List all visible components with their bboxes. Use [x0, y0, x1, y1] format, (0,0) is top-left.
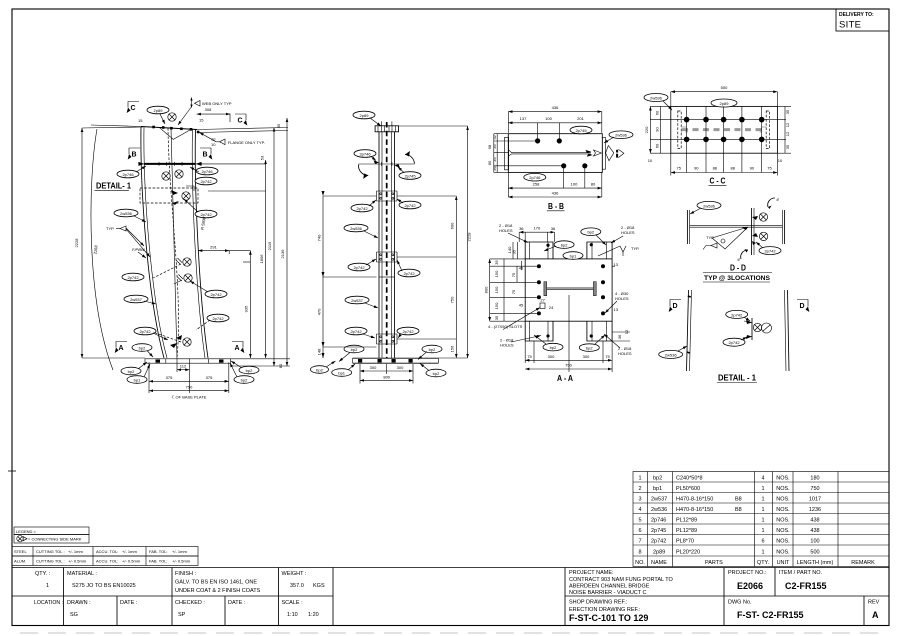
- svg-text:bp2: bp2: [433, 371, 440, 376]
- svg-text:1: 1: [761, 550, 764, 556]
- svg-text:PL12*89: PL12*89: [676, 518, 697, 524]
- svg-text:800: 800: [383, 375, 390, 380]
- svg-text:8: 8: [638, 550, 641, 556]
- svg-text:NOISE BARRIER - VIADUCT C: NOISE BARRIER - VIADUCT C: [569, 590, 647, 596]
- svg-text:F-ST-C-101 TO 129: F-ST-C-101 TO 129: [569, 613, 648, 623]
- svg-text:bp2: bp2: [139, 346, 146, 351]
- svg-text:2w536: 2w536: [650, 96, 663, 101]
- svg-text:36: 36: [519, 226, 524, 231]
- svg-text:6: 6: [736, 257, 742, 263]
- svg-text:750: 750: [186, 385, 193, 390]
- svg-text:12: 12: [785, 122, 790, 127]
- svg-text:90: 90: [654, 127, 659, 132]
- svg-text:1: 1: [761, 497, 764, 503]
- svg-text:2p742: 2p742: [200, 179, 212, 184]
- svg-text:2228: 2228: [467, 232, 472, 242]
- svg-text:R 5800: R 5800: [200, 216, 207, 230]
- svg-text:2w537: 2w537: [651, 497, 667, 503]
- svg-text:bp2: bp2: [561, 243, 568, 248]
- svg-text:2p745: 2p745: [651, 528, 666, 534]
- svg-text:PROJECT NAME:: PROJECT NAME:: [569, 570, 614, 576]
- svg-text:bp1: bp1: [653, 486, 662, 492]
- svg-text:2136: 2136: [280, 249, 285, 259]
- svg-text:H470-8-16*150: H470-8-16*150: [676, 507, 713, 513]
- svg-text:bp2: bp2: [246, 368, 253, 373]
- svg-text:+/- 1mm: +/- 1mm: [122, 549, 137, 554]
- svg-text:DRAWN :: DRAWN :: [67, 600, 91, 606]
- svg-text:F-ST- C2-FR155: F-ST- C2-FR155: [737, 610, 804, 620]
- svg-text:= CONNECTING SIDE MARK: = CONNECTING SIDE MARK: [28, 537, 82, 542]
- svg-text:+/- 0.5mm: +/- 0.5mm: [122, 559, 141, 564]
- svg-text:148: 148: [317, 348, 322, 355]
- svg-text:12: 12: [624, 329, 629, 334]
- svg-text:6: 6: [775, 197, 781, 203]
- svg-text:2w536: 2w536: [665, 352, 678, 357]
- svg-text:KGS: KGS: [313, 583, 325, 589]
- svg-text:PL20*220: PL20*220: [676, 550, 700, 556]
- svg-text:ACCU. TOL:: ACCU. TOL:: [96, 549, 118, 554]
- svg-text:2p746: 2p746: [122, 172, 134, 177]
- svg-text:2p89: 2p89: [154, 108, 164, 113]
- svg-text:90: 90: [750, 166, 755, 171]
- svg-text:1: 1: [761, 486, 764, 492]
- svg-text:750: 750: [810, 486, 819, 492]
- svg-text:2w536: 2w536: [350, 226, 363, 231]
- svg-text:FAB. TOL:: FAB. TOL:: [149, 549, 168, 554]
- svg-text:375: 375: [166, 375, 173, 380]
- svg-text:ALUM.: ALUM.: [14, 559, 26, 564]
- svg-text:438: 438: [810, 518, 819, 524]
- svg-text:2p745: 2p745: [575, 128, 587, 133]
- svg-text:NOS.: NOS.: [776, 507, 790, 513]
- svg-text:137: 137: [520, 116, 527, 121]
- svg-text:75: 75: [527, 354, 532, 359]
- svg-text:CONTRACT 903 NAM FUNG PORTAL T: CONTRACT 903 NAM FUNG PORTAL TO: [569, 577, 674, 583]
- svg-text:15: 15: [199, 118, 204, 123]
- svg-text:FINISH :: FINISH :: [175, 571, 197, 577]
- svg-text:6: 6: [761, 539, 764, 545]
- svg-text:88: 88: [713, 166, 718, 171]
- svg-text:QTY.: QTY.: [757, 560, 770, 566]
- svg-text:2p742: 2p742: [404, 203, 416, 208]
- svg-text:WEIGHT :: WEIGHT :: [282, 571, 307, 577]
- svg-text:500: 500: [721, 85, 728, 90]
- svg-text:B8: B8: [735, 497, 742, 503]
- svg-text:88: 88: [730, 166, 735, 171]
- svg-text:TYP.: TYP.: [631, 246, 639, 251]
- svg-text:ABERDEEN CHANNEL BRIDGE: ABERDEEN CHANNEL BRIDGE: [569, 584, 650, 590]
- svg-text:bp1: bp1: [338, 371, 345, 376]
- svg-text:GALV. TO BS EN ISO 1461, ONE: GALV. TO BS EN ISO 1461, ONE: [175, 580, 257, 586]
- svg-text:NOS.: NOS.: [776, 486, 790, 492]
- svg-text:1:20: 1:20: [308, 612, 319, 618]
- svg-text:1:10: 1:10: [287, 612, 298, 618]
- svg-text:35: 35: [494, 260, 499, 265]
- svg-text:NOS.: NOS.: [776, 550, 790, 556]
- svg-text:100: 100: [810, 539, 819, 545]
- svg-text:TYP.: TYP.: [706, 235, 714, 240]
- svg-text:436: 436: [552, 105, 559, 110]
- svg-text:TYP.: TYP.: [106, 226, 114, 231]
- svg-text:1: 1: [638, 476, 641, 482]
- svg-text:35: 35: [492, 157, 497, 162]
- svg-text:10: 10: [648, 158, 653, 163]
- svg-text:SP: SP: [178, 612, 186, 618]
- svg-text:740: 740: [317, 234, 322, 241]
- svg-text:2p742: 2p742: [200, 212, 212, 217]
- svg-text:CUTTING TOL :: CUTTING TOL :: [36, 559, 65, 564]
- svg-text:WEB ONLY TYP: WEB ONLY TYP: [202, 101, 232, 106]
- svg-text:D: D: [673, 303, 678, 310]
- svg-text:2p746: 2p746: [359, 152, 371, 157]
- svg-text:470: 470: [317, 308, 322, 315]
- svg-text:F/PBW: F/PBW: [132, 247, 146, 252]
- svg-text:DELIVERY TO:: DELIVERY TO:: [839, 12, 874, 18]
- svg-text:300: 300: [370, 365, 377, 370]
- svg-text:LEGEND >: LEGEND >: [16, 529, 37, 534]
- svg-text:220: 220: [644, 126, 649, 133]
- svg-text:180: 180: [810, 476, 819, 482]
- svg-text:300: 300: [397, 365, 404, 370]
- svg-text:2w536: 2w536: [615, 133, 628, 138]
- svg-text:35: 35: [785, 144, 790, 149]
- svg-text:27: 27: [540, 298, 545, 303]
- svg-text:HOLES: HOLES: [615, 296, 629, 301]
- svg-text:75: 75: [767, 166, 772, 171]
- svg-text:ITEM / PART NO.: ITEM / PART NO.: [779, 570, 823, 576]
- svg-text:C240*50*8: C240*50*8: [676, 476, 703, 482]
- svg-text:750: 750: [450, 296, 455, 303]
- svg-text:2228: 2228: [74, 238, 79, 248]
- svg-text:E2066: E2066: [737, 581, 763, 591]
- svg-text:DATE :: DATE :: [228, 600, 246, 606]
- svg-text:2w536: 2w536: [120, 211, 133, 216]
- svg-text:2w537: 2w537: [130, 297, 143, 302]
- svg-text:2p742: 2p742: [731, 312, 743, 317]
- svg-text:2p742: 2p742: [127, 275, 139, 280]
- svg-text:201: 201: [577, 116, 584, 121]
- svg-text:B: B: [132, 152, 137, 159]
- svg-text:bp2: bp2: [429, 347, 436, 352]
- svg-text:PL8*70: PL8*70: [676, 539, 694, 545]
- svg-text:PL50*600: PL50*600: [676, 486, 700, 492]
- svg-text:291: 291: [210, 245, 217, 250]
- svg-text:60: 60: [654, 143, 659, 148]
- svg-text:2p746: 2p746: [651, 518, 666, 524]
- svg-text:357.0: 357.0: [290, 583, 304, 589]
- svg-text:1: 1: [761, 518, 764, 524]
- svg-text:375: 375: [206, 375, 213, 380]
- svg-text:2p89: 2p89: [653, 550, 665, 556]
- svg-text:D: D: [800, 303, 805, 310]
- svg-text:SCALE :: SCALE :: [282, 600, 304, 606]
- svg-text:bp2: bp2: [316, 368, 323, 373]
- svg-text:bp2: bp2: [550, 345, 557, 350]
- svg-text:150: 150: [494, 302, 499, 309]
- svg-text:TYP @ 3LOCATIONS: TYP @ 3LOCATIONS: [704, 275, 770, 282]
- svg-text:2p742: 2p742: [651, 539, 666, 545]
- svg-text:1017: 1017: [809, 497, 821, 503]
- svg-text:LOCATION :: LOCATION :: [34, 600, 63, 606]
- svg-text:800: 800: [484, 286, 489, 293]
- svg-text:150: 150: [494, 270, 499, 277]
- svg-text:45: 45: [519, 266, 524, 271]
- svg-text:32: 32: [492, 134, 497, 139]
- svg-text:2p742: 2p742: [353, 265, 365, 270]
- svg-text:80: 80: [278, 363, 283, 368]
- svg-text:2115: 2115: [267, 241, 272, 250]
- svg-text:4: 4: [761, 476, 764, 482]
- svg-text:2168: 2168: [92, 244, 98, 254]
- svg-text:PARTS: PARTS: [705, 560, 723, 566]
- svg-text:LENGTH (mm): LENGTH (mm): [797, 560, 834, 566]
- svg-text:2p742: 2p742: [728, 340, 740, 345]
- svg-text:308: 308: [205, 107, 212, 112]
- svg-text:1236: 1236: [809, 507, 821, 513]
- svg-text:B: B: [203, 152, 208, 159]
- svg-text:2p742: 2p742: [350, 329, 362, 334]
- svg-text:53: 53: [260, 155, 265, 160]
- svg-text:REV: REV: [868, 600, 880, 606]
- svg-text:1806: 1806: [259, 254, 264, 264]
- svg-text:100: 100: [545, 116, 552, 121]
- svg-text:+/- 0.5mm: +/- 0.5mm: [172, 559, 191, 564]
- svg-text:600: 600: [450, 222, 455, 229]
- svg-text:bp2: bp2: [586, 346, 593, 351]
- svg-text:2p742: 2p742: [403, 271, 415, 276]
- svg-text:DWG No.: DWG No.: [728, 600, 752, 606]
- svg-text:35: 35: [276, 123, 281, 128]
- svg-text:438: 438: [810, 528, 819, 534]
- svg-text:bp1: bp1: [570, 254, 577, 259]
- svg-text:112: 112: [180, 364, 187, 369]
- svg-text:bp1: bp1: [134, 378, 141, 383]
- svg-text:3: 3: [638, 497, 641, 503]
- svg-text:bp2: bp2: [241, 378, 248, 383]
- svg-text:bp2: bp2: [653, 476, 662, 482]
- svg-text:35: 35: [494, 315, 499, 320]
- svg-text:2p745: 2p745: [404, 174, 416, 179]
- svg-text:4: 4: [638, 507, 641, 513]
- svg-text:FLANGE ONLY TYP.: FLANGE ONLY TYP.: [228, 140, 265, 145]
- svg-text:35: 35: [785, 109, 790, 114]
- svg-text:80: 80: [591, 182, 596, 187]
- svg-text:SG: SG: [70, 612, 78, 618]
- svg-text:2w536: 2w536: [703, 203, 716, 208]
- svg-text:bp2: bp2: [587, 230, 594, 235]
- svg-text:156: 156: [450, 345, 455, 352]
- svg-text:bp2: bp2: [128, 369, 135, 374]
- svg-text:bp2: bp2: [351, 347, 358, 352]
- svg-text:45: 45: [519, 303, 524, 308]
- svg-text:CUTTING TOL :: CUTTING TOL :: [36, 549, 65, 554]
- svg-text:C2-FR155: C2-FR155: [785, 581, 827, 591]
- svg-text:NAME: NAME: [651, 560, 667, 566]
- svg-text:7: 7: [638, 539, 641, 545]
- svg-text:S275 JO TO BS EN10025: S275 JO TO BS EN10025: [72, 583, 136, 589]
- svg-text:2p89: 2p89: [360, 113, 370, 118]
- svg-text:C: C: [238, 118, 243, 125]
- svg-text:15: 15: [138, 118, 143, 123]
- svg-text:6: 6: [638, 528, 641, 534]
- svg-text:1: 1: [761, 507, 764, 513]
- svg-text:300: 300: [583, 354, 590, 359]
- svg-text:75: 75: [605, 354, 610, 359]
- svg-text:HOLES: HOLES: [621, 230, 635, 235]
- svg-text:2: 2: [638, 486, 641, 492]
- svg-text:B8: B8: [735, 507, 742, 513]
- svg-text:+/- 1mm: +/- 1mm: [68, 549, 83, 554]
- svg-text:2p742: 2p742: [356, 206, 368, 211]
- svg-text:C: C: [131, 105, 136, 112]
- svg-text:A - A: A - A: [557, 374, 573, 383]
- svg-text:H470-8-16*150: H470-8-16*150: [676, 497, 713, 503]
- svg-text:B - B: B - B: [548, 202, 564, 211]
- svg-text:SITE: SITE: [839, 20, 861, 31]
- svg-text:436: 436: [552, 191, 559, 196]
- svg-text:1: 1: [46, 583, 49, 589]
- svg-text:170: 170: [534, 226, 541, 231]
- svg-text:60: 60: [654, 110, 659, 115]
- svg-text:NOS.: NOS.: [776, 497, 790, 503]
- svg-text:13: 13: [614, 307, 619, 312]
- svg-text:2p742: 2p742: [764, 249, 776, 254]
- svg-text:NOS.: NOS.: [776, 528, 790, 534]
- svg-text:HOLES: HOLES: [500, 343, 514, 348]
- svg-text:DETAIL - 1: DETAIL - 1: [718, 374, 757, 383]
- svg-text:DATE :: DATE :: [120, 600, 138, 606]
- svg-text:258: 258: [533, 182, 540, 187]
- svg-text:ℂ OF BASE PLATE: ℂ OF BASE PLATE: [172, 395, 207, 400]
- svg-text:ACCU. TOL:: ACCU. TOL:: [96, 559, 118, 564]
- svg-text:300: 300: [548, 354, 555, 359]
- svg-text:DETAIL- 1: DETAIL- 1: [96, 182, 132, 191]
- svg-text:2p746: 2p746: [529, 175, 541, 180]
- svg-text:PL12*89: PL12*89: [676, 528, 697, 534]
- svg-text:REMARK: REMARK: [851, 560, 875, 566]
- svg-text:2w536: 2w536: [651, 507, 667, 513]
- svg-text:CHECKED :: CHECKED :: [175, 600, 205, 606]
- svg-text:NO.: NO.: [635, 560, 645, 566]
- svg-text:2p742: 2p742: [212, 316, 224, 321]
- svg-text:A: A: [119, 345, 124, 352]
- svg-text:2p742: 2p742: [210, 292, 222, 297]
- svg-text:PROJECT NO.:: PROJECT NO.:: [728, 570, 767, 576]
- svg-text:75: 75: [511, 272, 516, 277]
- svg-text:150: 150: [494, 286, 499, 293]
- svg-text:STEEL: STEEL: [14, 549, 27, 554]
- svg-text:935: 935: [244, 305, 249, 312]
- svg-text:100: 100: [571, 182, 578, 187]
- svg-text:2p742: 2p742: [402, 329, 414, 334]
- svg-text:SHOP DRAWING REF.:: SHOP DRAWING REF.:: [569, 600, 628, 606]
- svg-text:36: 36: [492, 166, 497, 171]
- svg-text:2p746: 2p746: [201, 169, 213, 174]
- svg-text:NOS.: NOS.: [776, 518, 790, 524]
- svg-text:500: 500: [810, 550, 819, 556]
- svg-text:A: A: [872, 610, 879, 620]
- svg-text:90: 90: [694, 166, 699, 171]
- svg-text:HOLES: HOLES: [499, 228, 513, 233]
- svg-text:A: A: [235, 345, 240, 352]
- svg-text:NOS.: NOS.: [776, 539, 790, 545]
- svg-text:2p89: 2p89: [720, 101, 730, 106]
- svg-text:75: 75: [511, 289, 516, 294]
- svg-text:12: 12: [785, 131, 790, 136]
- svg-text:75: 75: [676, 166, 681, 171]
- svg-text:10: 10: [778, 158, 783, 163]
- svg-text:+/- 1mm: +/- 1mm: [172, 549, 187, 554]
- svg-text:10: 10: [211, 142, 216, 147]
- svg-text:750: 750: [565, 363, 572, 368]
- svg-text:D - D: D - D: [730, 264, 746, 273]
- svg-text:2p742: 2p742: [139, 329, 151, 334]
- svg-text:1: 1: [761, 528, 764, 534]
- svg-text:24: 24: [549, 305, 554, 310]
- svg-text:C - C: C - C: [710, 177, 726, 186]
- svg-text:35: 35: [492, 144, 497, 149]
- svg-text:UNIT: UNIT: [777, 560, 790, 566]
- svg-text:NOS.: NOS.: [776, 476, 790, 482]
- svg-text:36: 36: [617, 334, 622, 339]
- svg-text:5: 5: [638, 518, 641, 524]
- svg-text:UNDER COAT & 2 FINISH COATS: UNDER COAT & 2 FINISH COATS: [175, 588, 261, 594]
- svg-text:MATERIAL :: MATERIAL :: [67, 571, 97, 577]
- svg-text:+/- 0.5mm: +/- 0.5mm: [68, 559, 87, 564]
- svg-text:36: 36: [551, 226, 556, 231]
- svg-text:QTY. :: QTY. :: [35, 571, 51, 577]
- svg-text:35: 35: [512, 249, 517, 254]
- svg-text:HOLES: HOLES: [618, 351, 632, 356]
- svg-text:FAB. TOL:: FAB. TOL:: [149, 559, 168, 564]
- svg-text:2w537: 2w537: [351, 298, 364, 303]
